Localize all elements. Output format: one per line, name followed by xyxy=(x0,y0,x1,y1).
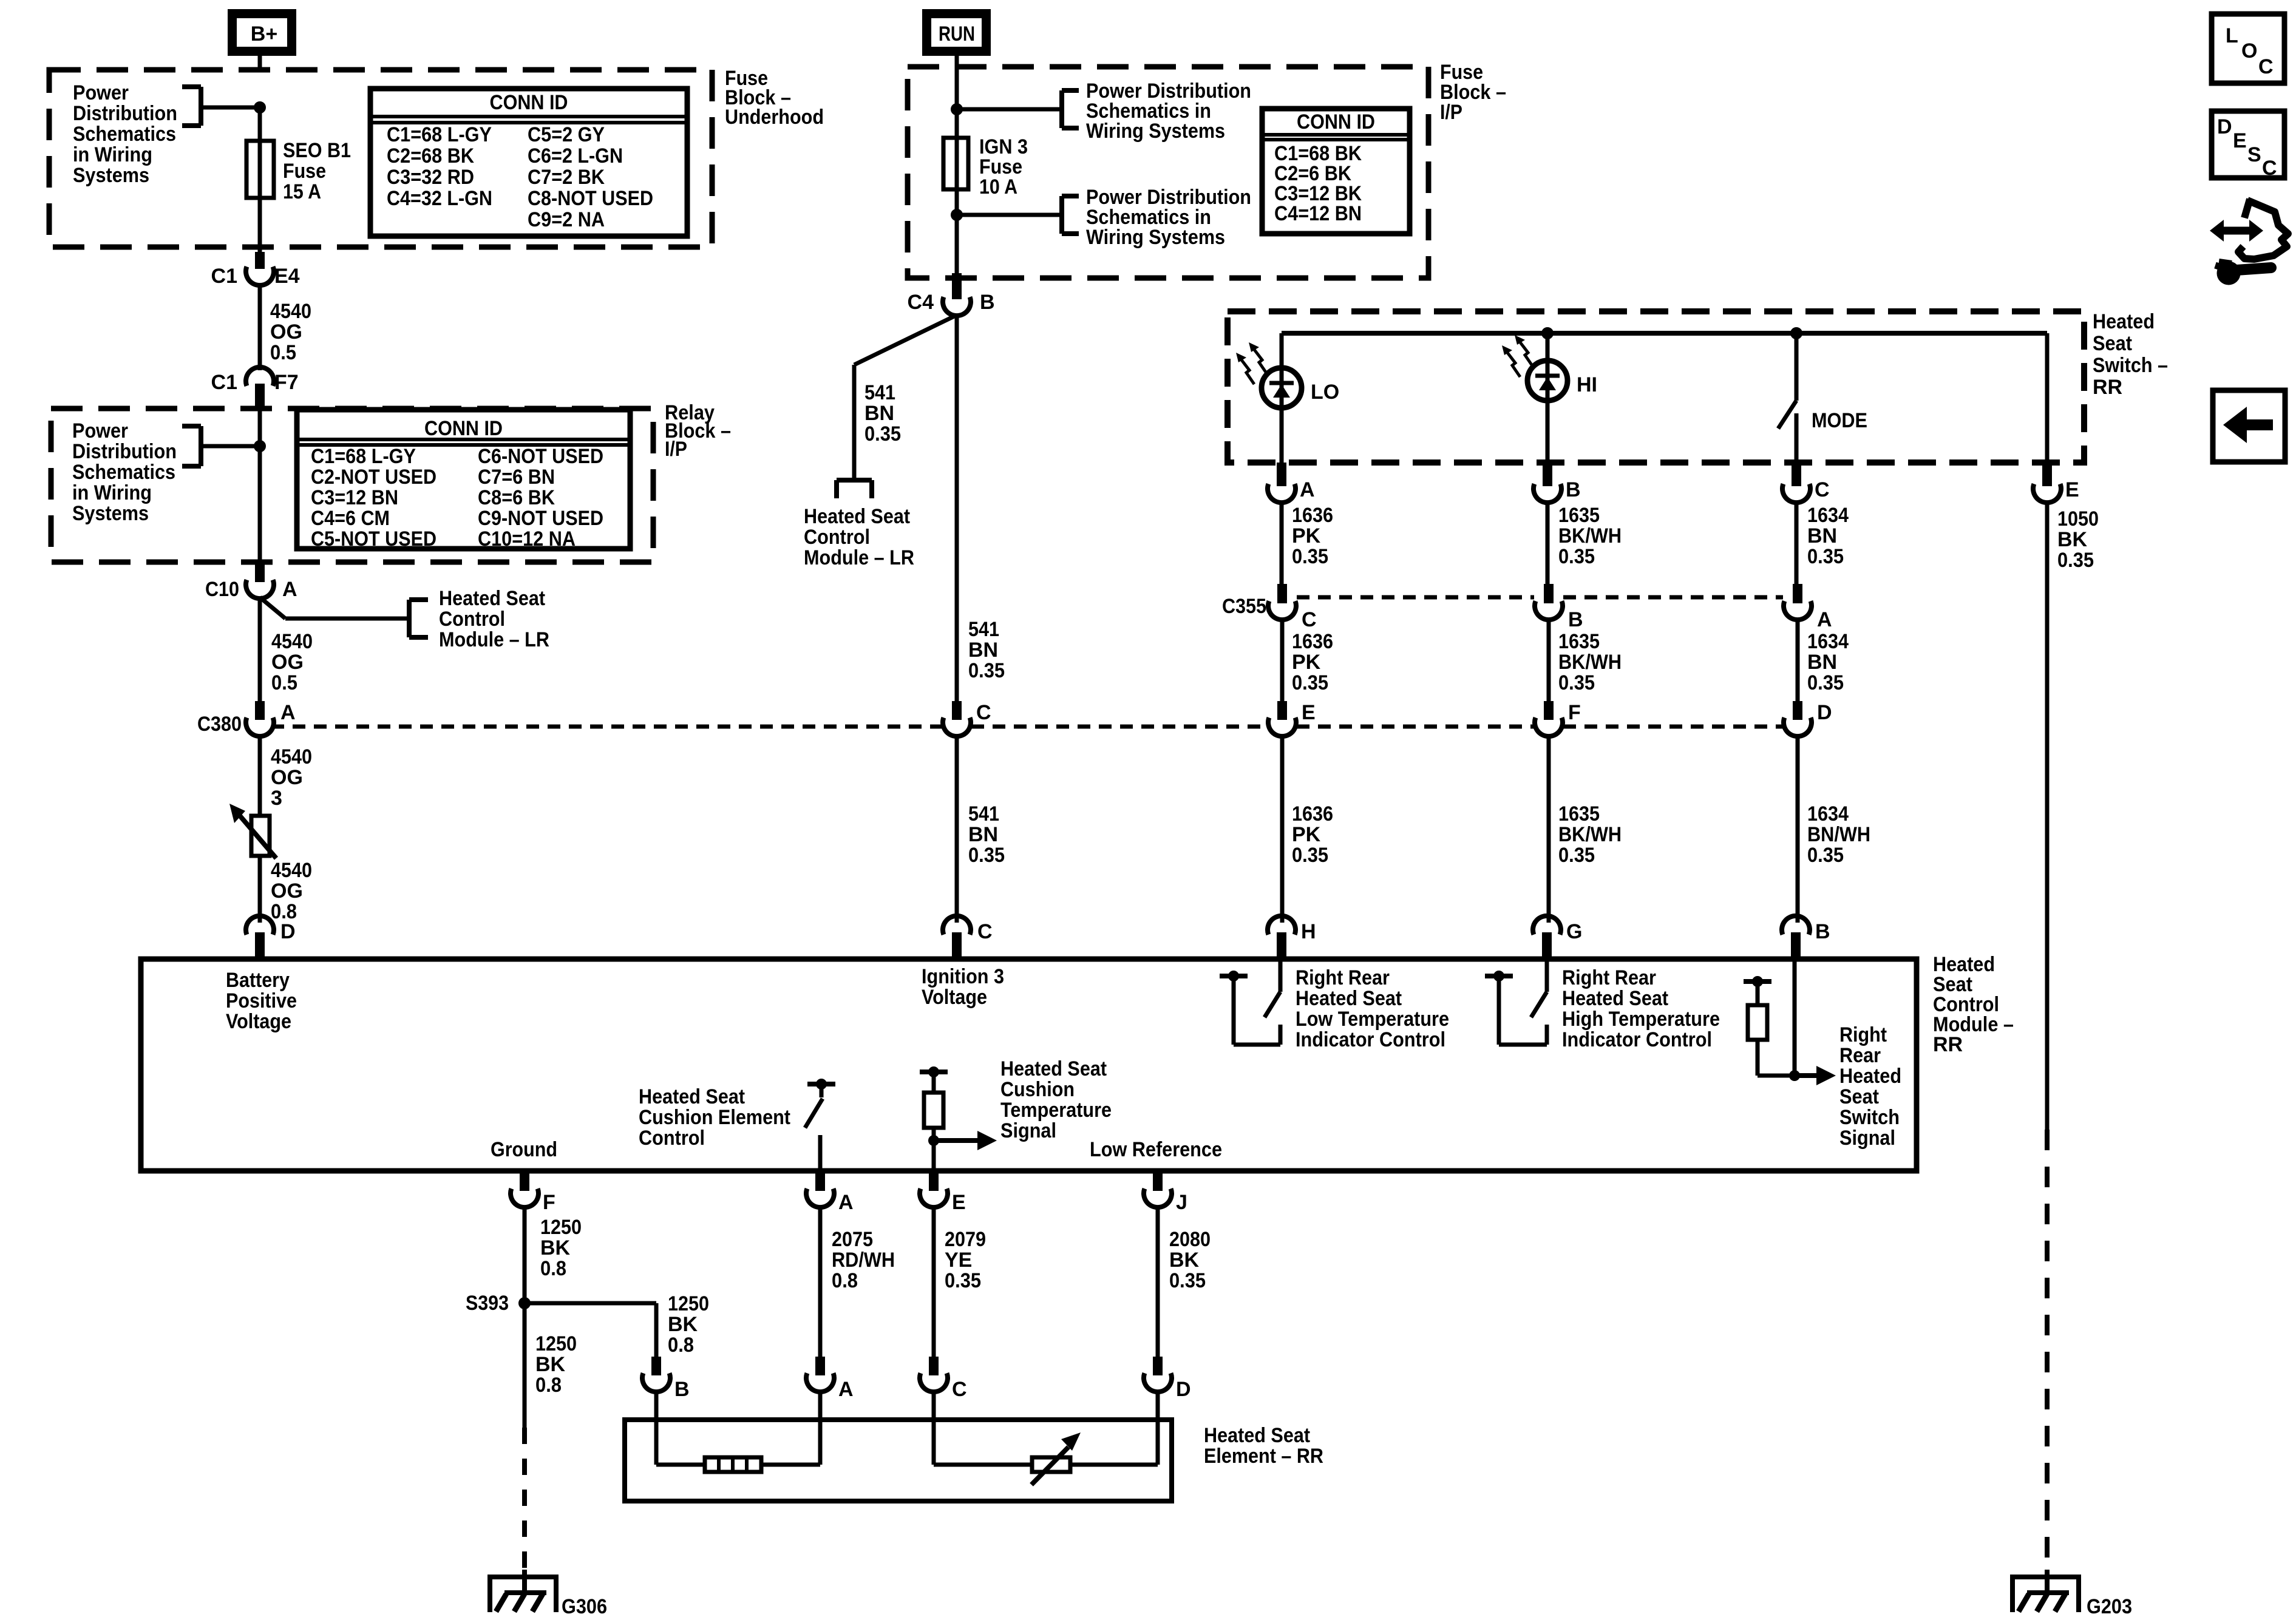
low temperature indicator driver xyxy=(1220,959,1280,1045)
svg-text:Element – RR: Element – RR xyxy=(1204,1445,1323,1468)
svg-text:C10: C10 xyxy=(205,578,239,601)
fuse SEO B1 xyxy=(246,141,274,198)
svg-text:Control: Control xyxy=(439,608,505,631)
svg-text:PK: PK xyxy=(1292,823,1321,846)
svg-text:C355: C355 xyxy=(1222,595,1266,618)
svg-text:1250: 1250 xyxy=(540,1216,582,1239)
svg-text:0.35: 0.35 xyxy=(945,1269,981,1292)
connector D at C380 row xyxy=(1784,701,1832,736)
svg-text:C5-NOT USED: C5-NOT USED xyxy=(311,527,436,551)
svg-text:C4=6 CM: C4=6 CM xyxy=(311,507,390,530)
wire 1635 BK/WH xyxy=(1547,619,1551,701)
svg-text:C1: C1 xyxy=(211,265,237,288)
svg-text:A: A xyxy=(1300,478,1315,501)
svg-text:Fuse: Fuse xyxy=(283,160,326,183)
svg-text:1634: 1634 xyxy=(1807,802,1849,825)
svg-text:C: C xyxy=(1815,478,1830,501)
svg-text:D: D xyxy=(1176,1378,1191,1401)
wire xyxy=(1070,1391,1158,1465)
wire label 1635 BK/WH 0.35 xyxy=(1558,802,1622,867)
wire 1050 BK xyxy=(2045,502,2050,1130)
svg-text:Module – LR: Module – LR xyxy=(804,546,914,569)
label heated seat cushion temperature signal xyxy=(1000,1057,1112,1142)
svg-text:0.35: 0.35 xyxy=(1807,671,1844,694)
splice S393 xyxy=(466,1292,531,1315)
svg-text:OG: OG xyxy=(270,320,302,344)
svg-text:1250: 1250 xyxy=(668,1292,709,1315)
wire xyxy=(934,1391,1032,1465)
fuse IGN 3 xyxy=(943,138,968,189)
wire 1635 BK/WH xyxy=(1547,736,1551,923)
connector J heated seat control module RR xyxy=(1144,1171,1187,1214)
cushion temperature sense resistor xyxy=(920,1067,997,1171)
svg-text:SEO B1: SEO B1 xyxy=(283,139,351,162)
label heated seat switch RR xyxy=(2093,310,2168,399)
svg-text:Systems: Systems xyxy=(73,164,149,187)
svg-text:4540: 4540 xyxy=(270,300,311,323)
svg-text:BK/WH: BK/WH xyxy=(1558,524,1622,547)
wire xyxy=(258,56,262,72)
wire 2079 YE 0.35 xyxy=(932,1207,936,1358)
svg-text:Heated Seat: Heated Seat xyxy=(1562,987,1668,1010)
svg-text:C1: C1 xyxy=(211,371,237,394)
svg-text:C2=68 BK: C2=68 BK xyxy=(387,144,474,168)
wire xyxy=(761,1391,820,1465)
svg-text:Signal: Signal xyxy=(1000,1119,1056,1142)
connector A heated seat switch xyxy=(1268,463,1315,503)
wire xyxy=(955,56,959,68)
svg-text:Seat: Seat xyxy=(1839,1085,1879,1108)
svg-text:Temperature: Temperature xyxy=(1000,1099,1112,1122)
svg-text:4540: 4540 xyxy=(271,859,312,882)
connector F heated seat control module RR xyxy=(511,1171,555,1214)
wire label 4540 OG 0.5 xyxy=(270,300,311,364)
svg-text:Battery: Battery xyxy=(226,969,290,992)
svg-text:F: F xyxy=(543,1191,555,1214)
connector C4 B xyxy=(908,273,995,316)
svg-text:B+: B+ xyxy=(251,22,277,46)
svg-text:O: O xyxy=(2241,39,2257,63)
wire label 2080 BK 0.35 xyxy=(1169,1228,1211,1292)
connector A heated seat element xyxy=(806,1357,854,1401)
svg-text:Voltage: Voltage xyxy=(922,986,987,1009)
svg-text:BK/WH: BK/WH xyxy=(1558,651,1622,674)
svg-text:BK: BK xyxy=(535,1353,566,1376)
wire 1635 BK/WH xyxy=(1546,502,1550,584)
wire label 2075 RD/WH 0.8 xyxy=(832,1228,895,1292)
svg-text:0.35: 0.35 xyxy=(1292,844,1328,867)
conn id table underhood xyxy=(370,89,687,236)
svg-text:4540: 4540 xyxy=(271,630,313,653)
connector C355 B xyxy=(1535,584,1583,631)
svg-text:C1=68 L-GY: C1=68 L-GY xyxy=(311,445,416,468)
wire label 1634 BN 0.35 xyxy=(1807,504,1849,568)
svg-text:in Wiring: in Wiring xyxy=(73,143,152,166)
svg-text:BK: BK xyxy=(540,1236,571,1259)
wire 4540 OG 0.5 xyxy=(258,597,262,704)
svg-text:Heated Seat: Heated Seat xyxy=(1204,1424,1310,1447)
wire xyxy=(258,402,262,578)
connector C1 E4 xyxy=(211,252,300,288)
svg-text:A: A xyxy=(282,578,297,601)
pin label ignition 3 voltage xyxy=(922,965,1004,1009)
svg-text:Heated Seat: Heated Seat xyxy=(639,1085,745,1108)
switch signal resistor xyxy=(1744,959,1836,1085)
wire 1050 BK (dashed) xyxy=(2045,1130,2050,1577)
label power distribution schematics xyxy=(73,81,177,187)
svg-text:0.35: 0.35 xyxy=(1558,671,1595,694)
svg-text:0.5: 0.5 xyxy=(271,671,297,694)
svg-text:Heated Seat: Heated Seat xyxy=(1000,1057,1107,1080)
connector F at C380 row xyxy=(1535,701,1581,736)
wire label 1636 PK 0.35 xyxy=(1292,504,1333,568)
svg-text:D: D xyxy=(280,920,296,943)
heating element xyxy=(705,1457,761,1472)
svg-text:Positive: Positive xyxy=(226,989,297,1012)
ground G203 xyxy=(2012,1570,2079,1612)
connector C heated seat switch xyxy=(1782,463,1830,503)
svg-text:3: 3 xyxy=(271,787,282,810)
svg-text:Ignition 3: Ignition 3 xyxy=(922,965,1004,988)
svg-text:BN/WH: BN/WH xyxy=(1807,823,1870,846)
svg-text:Voltage: Voltage xyxy=(226,1010,291,1033)
svg-text:J: J xyxy=(1176,1191,1187,1214)
svg-text:Switch: Switch xyxy=(1839,1106,1900,1129)
svg-text:RR: RR xyxy=(1933,1033,1963,1056)
svg-text:B: B xyxy=(1566,478,1581,501)
high temperature indicator driver xyxy=(1485,959,1547,1045)
svg-text:C6-NOT USED: C6-NOT USED xyxy=(478,445,603,468)
wire label 1050 BK 0.35 xyxy=(2057,507,2099,572)
svg-text:BN: BN xyxy=(968,639,998,662)
wire label 1250 BK 0.8 xyxy=(540,1216,582,1280)
svg-text:D: D xyxy=(1817,701,1832,724)
svg-text:Low Reference: Low Reference xyxy=(1090,1138,1222,1161)
svg-text:Heated: Heated xyxy=(1839,1065,1901,1088)
svg-text:in Wiring: in Wiring xyxy=(72,481,152,504)
connector C10 A xyxy=(205,564,297,601)
heated seat control module RR (box) xyxy=(141,959,1917,1171)
wire label 1635 BK/WH 0.35 xyxy=(1558,504,1622,568)
icon DESC xyxy=(2212,111,2284,180)
connector D heated seat element xyxy=(1144,1357,1191,1401)
wire label 1636 PK 0.35 xyxy=(1292,630,1333,694)
switch MODE xyxy=(1778,333,1796,464)
svg-text:Wiring Systems: Wiring Systems xyxy=(1086,226,1225,249)
svg-text:0.8: 0.8 xyxy=(832,1269,858,1292)
svg-text:Heated Seat: Heated Seat xyxy=(1296,987,1402,1010)
connector E at C380 row xyxy=(1268,701,1316,736)
svg-text:BN: BN xyxy=(1807,651,1837,674)
ground G306 xyxy=(490,1570,556,1612)
label MODE xyxy=(1812,409,1867,432)
svg-text:C1=68 L-GY: C1=68 L-GY xyxy=(387,123,492,146)
svg-text:Right Rear: Right Rear xyxy=(1562,966,1656,989)
svg-text:C4=12 BN: C4=12 BN xyxy=(1274,202,1362,225)
svg-text:Underhood: Underhood xyxy=(725,106,824,129)
svg-text:C3=32 RD: C3=32 RD xyxy=(387,166,474,189)
svg-text:Right: Right xyxy=(1839,1023,1887,1046)
reference bracket xyxy=(837,480,872,498)
label fuse block underhood xyxy=(725,67,824,129)
svg-text:Rear: Rear xyxy=(1839,1044,1881,1067)
svg-text:Distribution: Distribution xyxy=(73,102,177,125)
indicator LED HI xyxy=(1502,333,1567,401)
wire xyxy=(656,1391,705,1465)
label heated seat element RR xyxy=(1204,1424,1323,1468)
svg-text:YE: YE xyxy=(945,1249,972,1272)
svg-text:LO: LO xyxy=(1311,381,1339,404)
wire 2080 BK 0.35 xyxy=(1156,1207,1160,1358)
connector C1 F7 xyxy=(211,367,299,408)
connector E heated seat control module RR xyxy=(920,1171,966,1214)
svg-text:0.35: 0.35 xyxy=(1292,671,1328,694)
svg-text:G203: G203 xyxy=(2087,1595,2132,1617)
wire 541 BN 0.35 xyxy=(955,315,959,704)
svg-text:Control: Control xyxy=(804,526,870,549)
wire 1250 BK 0.8 xyxy=(523,1207,527,1303)
svg-text:OG: OG xyxy=(271,880,303,903)
svg-text:G: G xyxy=(1566,920,1582,943)
svg-text:Right Rear: Right Rear xyxy=(1296,966,1390,989)
node junction in fuse block xyxy=(201,102,266,114)
svg-text:C: C xyxy=(2258,55,2274,78)
svg-text:C: C xyxy=(952,1378,967,1401)
wire 1634 BN/WH xyxy=(1796,736,1800,923)
pin label low reference xyxy=(1090,1138,1222,1161)
label heated seat control module LR xyxy=(804,505,914,569)
svg-text:0.8: 0.8 xyxy=(540,1257,566,1280)
connector A heated seat control module RR xyxy=(806,1171,854,1214)
svg-text:F: F xyxy=(1568,701,1581,724)
icon LOC xyxy=(2212,14,2284,83)
svg-text:0.35: 0.35 xyxy=(1558,545,1595,568)
svg-text:Signal: Signal xyxy=(1839,1127,1895,1150)
power symbol B+ xyxy=(233,14,292,52)
svg-text:0.35: 0.35 xyxy=(1807,545,1844,568)
svg-text:C9=2 NA: C9=2 NA xyxy=(528,208,605,231)
icon back arrow xyxy=(2213,390,2285,462)
wire xyxy=(1546,399,1550,464)
value label IGN 3 fuse 10A xyxy=(979,135,1028,198)
wire xyxy=(1280,407,1284,464)
svg-text:0.8: 0.8 xyxy=(668,1334,694,1357)
svg-text:E: E xyxy=(2233,129,2247,152)
svg-text:2075: 2075 xyxy=(832,1228,873,1251)
svg-text:C3=12 BN: C3=12 BN xyxy=(311,486,398,509)
svg-text:Cushion Element: Cushion Element xyxy=(639,1106,790,1129)
connector C at C380 row xyxy=(943,701,991,736)
wire label 541 BN 0.35 xyxy=(968,618,1005,682)
label right rear heated seat high temperature indicator control xyxy=(1562,966,1720,1051)
conn id table fuse block IP xyxy=(1262,109,1410,234)
svg-text:541: 541 xyxy=(968,802,999,825)
label power distribution schematics xyxy=(72,419,177,525)
svg-text:Distribution: Distribution xyxy=(72,440,177,463)
reference bracket xyxy=(182,426,201,466)
svg-text:C9-NOT USED: C9-NOT USED xyxy=(478,507,603,530)
svg-text:OG: OG xyxy=(271,766,303,789)
svg-text:A: A xyxy=(838,1378,854,1401)
pin label battery positive voltage xyxy=(226,969,297,1033)
wire 2075 RD/WH 0.8 xyxy=(818,1207,823,1358)
svg-text:0.35: 0.35 xyxy=(1558,844,1595,867)
wire common rail xyxy=(1282,331,2047,336)
svg-text:MODE: MODE xyxy=(1812,409,1867,432)
svg-text:10 A: 10 A xyxy=(979,175,1017,198)
connector C355 A xyxy=(1784,584,1832,631)
reference bracket xyxy=(1062,90,1079,128)
heated seat switch RR (dashed box) xyxy=(1228,311,2084,463)
svg-text:C: C xyxy=(1302,608,1317,631)
wire 1636 PK xyxy=(1280,502,1284,584)
svg-text:Cushion: Cushion xyxy=(1000,1078,1075,1101)
wire 4540 OG 3 xyxy=(258,736,262,816)
power symbol RUN xyxy=(927,14,987,52)
variable attenuator (battery feed) xyxy=(229,804,276,858)
pin label ground xyxy=(491,1138,557,1161)
label relay block IP xyxy=(665,401,731,461)
svg-text:S: S xyxy=(2247,143,2261,166)
connector G heated seat control module RR xyxy=(1533,916,1582,959)
svg-text:E: E xyxy=(952,1191,966,1214)
svg-text:CONN ID: CONN ID xyxy=(490,91,568,114)
fuse block underhood (dashed box) xyxy=(49,70,712,247)
wire 1250 BK 0.8 xyxy=(523,1303,527,1428)
label G306 xyxy=(562,1595,607,1617)
svg-text:Power: Power xyxy=(73,81,129,104)
svg-text:PK: PK xyxy=(1292,651,1321,674)
svg-text:Power: Power xyxy=(72,419,128,442)
svg-text:Wiring Systems: Wiring Systems xyxy=(1086,120,1225,143)
svg-text:CONN ID: CONN ID xyxy=(1297,110,1375,134)
inline connector row C380 (dashed) xyxy=(271,725,1783,729)
wire label 4540 OG 0.5 xyxy=(271,630,313,694)
svg-text:BK: BK xyxy=(668,1313,698,1336)
conn id table relay block xyxy=(297,410,630,551)
svg-text:0.8: 0.8 xyxy=(535,1374,562,1397)
svg-text:E4: E4 xyxy=(274,265,300,288)
connector B heated seat switch xyxy=(1533,463,1581,503)
svg-text:S393: S393 xyxy=(466,1292,509,1315)
svg-text:D: D xyxy=(2217,115,2232,138)
svg-text:1636: 1636 xyxy=(1292,504,1333,527)
svg-text:Ground: Ground xyxy=(491,1138,557,1161)
svg-text:B: B xyxy=(980,291,995,314)
wire label 1250 BK 0.8 xyxy=(668,1292,709,1357)
connector C heated seat element xyxy=(920,1357,967,1401)
svg-text:Heated: Heated xyxy=(2093,310,2155,333)
svg-text:15 A: 15 A xyxy=(283,180,321,203)
svg-text:RD/WH: RD/WH xyxy=(832,1249,895,1272)
svg-text:A: A xyxy=(280,701,296,724)
svg-text:Switch –: Switch – xyxy=(2093,354,2168,377)
wire branch to heated seat control module LR xyxy=(854,315,957,480)
svg-text:BN: BN xyxy=(1807,524,1837,547)
svg-text:1250: 1250 xyxy=(535,1332,577,1355)
reference bracket xyxy=(182,87,201,126)
svg-text:Indicator Control: Indicator Control xyxy=(1562,1028,1712,1051)
svg-text:C: C xyxy=(2262,157,2277,180)
fuse block IP (dashed box) xyxy=(908,67,1428,278)
svg-text:CONN ID: CONN ID xyxy=(424,417,503,440)
indicator LED LO xyxy=(1236,333,1302,408)
svg-text:C2-NOT USED: C2-NOT USED xyxy=(311,466,436,489)
svg-text:E: E xyxy=(1302,701,1316,724)
connector B heated seat control module RR xyxy=(1782,916,1830,959)
svg-text:B: B xyxy=(674,1378,690,1401)
svg-text:BK/WH: BK/WH xyxy=(1558,823,1622,846)
heated seat element RR (box) xyxy=(625,1420,1172,1501)
svg-text:0.35: 0.35 xyxy=(864,422,901,446)
svg-text:G306: G306 xyxy=(562,1595,607,1617)
svg-text:2080: 2080 xyxy=(1169,1228,1211,1251)
wire label 541 BN 0.35 xyxy=(864,381,901,446)
wire 4540 OG 0.5 xyxy=(258,285,262,370)
svg-text:Seat: Seat xyxy=(2093,332,2132,355)
svg-text:BK: BK xyxy=(2057,528,2088,551)
node junction xyxy=(1791,328,1802,339)
connector H heated seat control module RR xyxy=(1268,916,1316,959)
connector C heated seat control module RR xyxy=(943,916,993,959)
svg-text:0.35: 0.35 xyxy=(2057,549,2094,572)
svg-text:0.5: 0.5 xyxy=(270,341,296,364)
svg-text:1636: 1636 xyxy=(1292,802,1333,825)
wire xyxy=(258,107,262,257)
svg-text:C: C xyxy=(976,701,991,724)
label power distribution schematics xyxy=(1086,80,1251,143)
svg-text:B: B xyxy=(1815,920,1830,943)
label heated seat cushion element control xyxy=(639,1085,790,1150)
node junction in relay block xyxy=(201,441,266,452)
svg-text:0.35: 0.35 xyxy=(1169,1269,1206,1292)
svg-text:C4=32 L-GN: C4=32 L-GN xyxy=(387,187,492,210)
wire label 1636 PK 0.35 xyxy=(1292,802,1333,867)
svg-text:RUN: RUN xyxy=(939,22,975,46)
svg-text:Systems: Systems xyxy=(72,502,149,525)
svg-text:F7: F7 xyxy=(274,371,299,394)
svg-text:Schematics: Schematics xyxy=(73,123,176,146)
wire label 1634 BN 0.35 xyxy=(1807,630,1849,694)
svg-text:I/P: I/P xyxy=(1440,101,1462,124)
svg-text:C4: C4 xyxy=(908,291,934,314)
svg-text:A: A xyxy=(838,1191,854,1214)
wire xyxy=(2045,333,2050,464)
wire label 1250 BK 0.8 xyxy=(535,1332,577,1397)
label right rear heated seat switch signal xyxy=(1839,1023,1901,1150)
svg-text:Heated Seat: Heated Seat xyxy=(439,587,545,610)
relay block IP (dashed box) xyxy=(51,408,653,562)
wire 4540 OG 0.8 xyxy=(258,856,262,923)
svg-text:C5=2 GY: C5=2 GY xyxy=(528,123,605,146)
svg-text:BN: BN xyxy=(864,402,894,425)
connector C355 C xyxy=(1222,584,1317,631)
svg-text:A: A xyxy=(1817,608,1832,631)
svg-text:PK: PK xyxy=(1292,524,1321,547)
wire xyxy=(955,68,959,273)
inline connector row C355 (dashed) xyxy=(1297,595,1783,600)
svg-text:541: 541 xyxy=(864,381,895,404)
svg-text:C7=2 BK: C7=2 BK xyxy=(528,166,605,189)
svg-text:E: E xyxy=(2065,478,2079,501)
svg-text:C: C xyxy=(977,920,993,943)
svg-text:HI: HI xyxy=(1577,373,1597,396)
svg-text:OG: OG xyxy=(271,651,304,674)
svg-text:0.35: 0.35 xyxy=(968,659,1005,682)
label heated seat control module LR xyxy=(439,587,549,651)
node junction xyxy=(1542,328,1554,339)
reference bracket xyxy=(409,600,428,637)
